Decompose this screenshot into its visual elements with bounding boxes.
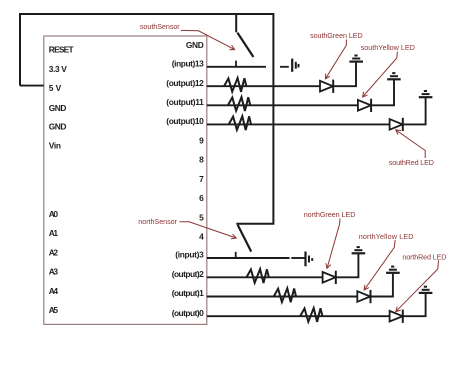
svg-text:3.3 V: 3.3 V (49, 64, 67, 74)
svg-text:A3: A3 (49, 267, 59, 277)
svg-text:(input)3: (input)3 (175, 250, 204, 260)
svg-text:southSensor: southSensor (140, 22, 180, 31)
svg-text:southYellow LED: southYellow LED (361, 43, 415, 52)
svg-text:GND: GND (49, 122, 67, 132)
svg-text:5: 5 (199, 212, 204, 222)
svg-text:northYellow LED: northYellow LED (359, 232, 414, 241)
svg-text:RESET: RESET (49, 45, 75, 55)
svg-text:(output)0: (output)0 (172, 308, 204, 318)
svg-text:A2: A2 (49, 247, 59, 257)
svg-text:(output)2: (output)2 (172, 269, 204, 279)
svg-text:7: 7 (199, 174, 204, 184)
svg-text:A5: A5 (49, 305, 59, 315)
svg-text:northRed LED: northRed LED (402, 252, 446, 261)
svg-text:southRed LED: southRed LED (389, 158, 434, 167)
svg-text:(output)1: (output)1 (172, 288, 204, 298)
svg-text:GND: GND (49, 103, 67, 113)
svg-text:Vin: Vin (49, 140, 61, 150)
svg-text:(output)10: (output)10 (166, 116, 204, 126)
svg-text:4: 4 (199, 232, 204, 242)
svg-text:8: 8 (199, 155, 204, 165)
svg-text:A1: A1 (49, 228, 59, 238)
svg-text:northGreen LED: northGreen LED (304, 210, 356, 219)
svg-text:GND: GND (186, 40, 204, 50)
svg-text:9: 9 (199, 135, 204, 145)
svg-text:southGreen LED: southGreen LED (310, 31, 363, 40)
svg-text:northSensor: northSensor (138, 217, 177, 226)
svg-text:A0: A0 (49, 209, 59, 219)
svg-text:(output)11: (output)11 (166, 97, 204, 107)
svg-text:A4: A4 (49, 286, 59, 296)
svg-text:5 V: 5 V (49, 83, 62, 93)
svg-text:6: 6 (199, 193, 204, 203)
svg-text:(output)12: (output)12 (166, 78, 204, 88)
svg-text:(input)13: (input)13 (172, 58, 204, 68)
